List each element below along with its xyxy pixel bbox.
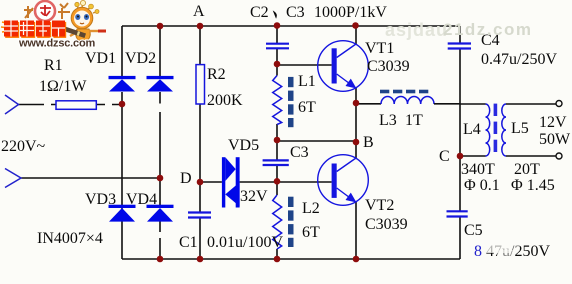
- svg-text:C3: C3: [290, 144, 309, 161]
- svg-text:20T: 20T: [514, 161, 540, 178]
- svg-text:21dz.com: 21dz.com: [443, 20, 532, 39]
- svg-text:www.dzsc.com: www.dzsc.com: [18, 38, 95, 50]
- terminal input lower: [5, 169, 21, 188]
- svg-text:IN4007×4: IN4007×4: [37, 230, 103, 247]
- svg-text:L2: L2: [302, 200, 320, 217]
- wire VT1 base: [277, 64, 332, 66]
- svg-text:C1: C1: [179, 234, 198, 251]
- output terminal top: [556, 101, 562, 107]
- 0.47u/250V label of C5: [474, 243, 550, 260]
- svg-text:VT2: VT2: [365, 197, 394, 214]
- svg-text:50W: 50W: [539, 131, 571, 148]
- inductor L3: [381, 96, 434, 104]
- junction VT1 emitter L3: [353, 100, 360, 107]
- logo magnifier: [35, 1, 55, 21]
- core of L2: [288, 197, 294, 247]
- wire transformer primary bottom: [460, 155, 486, 157]
- svg-text:1T: 1T: [405, 112, 423, 129]
- svg-text:C: C: [439, 148, 450, 165]
- junction top rail VD2: [157, 23, 164, 30]
- wire transformer primary top: [460, 103, 486, 105]
- watermark logo group: [1, 0, 106, 49]
- junction top rail C2: [274, 22, 281, 29]
- wire secondary top: [506, 103, 556, 105]
- svg-text:C3: C3: [286, 4, 305, 21]
- svg-text:VD3: VD3: [85, 191, 116, 208]
- wire AC input lower: [21, 177, 160, 179]
- winding L4: [486, 104, 490, 156]
- wire column x=277: [276, 26, 278, 259]
- svg-text:Φ 1.45: Φ 1.45: [511, 177, 555, 194]
- svg-text:0.47u/250V: 0.47u/250V: [481, 51, 557, 68]
- transformer core: [494, 104, 498, 152]
- svg-text:12V: 12V: [539, 114, 567, 131]
- svg-text:340T: 340T: [461, 161, 495, 178]
- logo brand character strokes: [24, 3, 70, 19]
- svg-text:Φ 0.1: Φ 0.1: [464, 177, 500, 194]
- wire secondary bottom: [506, 155, 556, 157]
- svg-text:L5: L5: [511, 120, 529, 137]
- diode VD3: [109, 205, 136, 222]
- junction R1 to bridge: [119, 101, 126, 108]
- svg-text:asjdau: asjdau: [385, 20, 448, 40]
- svg-text:D: D: [180, 170, 192, 187]
- wire VT2 emitter down: [355, 202, 357, 259]
- inductor L1: [273, 76, 282, 125]
- svg-text:6T: 6T: [298, 99, 316, 116]
- core of L3: [380, 90, 428, 94]
- diac VD5: [222, 157, 240, 207]
- wire right column: [459, 26, 461, 259]
- transistor VT1: [318, 41, 369, 92]
- junction bottom rail C1: [197, 256, 204, 263]
- svg-text:0.01u/100V: 0.01u/100V: [207, 234, 283, 251]
- svg-text:1Ω/1W: 1Ω/1W: [39, 78, 87, 95]
- junction node D: [197, 179, 204, 186]
- wire node D horizontal: [200, 181, 277, 183]
- wire column x=200: [199, 26, 201, 259]
- wire left column x=122: [121, 26, 123, 259]
- svg-text:32V: 32V: [240, 188, 268, 205]
- svg-text:1000P/1kV: 1000P/1kV: [314, 4, 387, 21]
- svg-text:VD1: VD1: [85, 50, 116, 67]
- wire VT2 base: [277, 181, 332, 183]
- ideographic comma of C2 C3: [274, 12, 276, 17]
- svg-text:C2: C2: [250, 4, 269, 21]
- wire top rail: [122, 25, 460, 27]
- resistor R1: [56, 101, 96, 110]
- junction top rail VT1 collector: [352, 22, 359, 29]
- wire AC input upper: [19, 104, 123, 106]
- wire node B vertical: [355, 103, 357, 158]
- junction C3 to VT2 base: [274, 178, 281, 185]
- logo pencil: [53, 25, 87, 39]
- wire column x=160: [159, 26, 161, 259]
- svg-text:220V~: 220V~: [1, 138, 46, 155]
- svg-text:L3: L3: [379, 112, 397, 129]
- svg-text:B: B: [363, 134, 374, 151]
- junction node A: [197, 23, 204, 30]
- resistor R2: [196, 65, 205, 104]
- svg-text:R2: R2: [207, 66, 226, 83]
- capacitor C1: [188, 213, 211, 218]
- capacitor C2: [266, 44, 289, 49]
- svg-text:8: 8: [474, 243, 482, 260]
- winding L5: [502, 104, 506, 156]
- wire L3 left lead: [356, 103, 381, 105]
- inductor L2: [273, 195, 282, 249]
- junction node B: [353, 139, 360, 146]
- logo weiku text: [5, 22, 66, 38]
- svg-text:6T: 6T: [302, 224, 320, 241]
- wire VT1 collector vertical: [355, 26, 357, 44]
- output terminal bottom: [556, 153, 562, 159]
- svg-text:VD4: VD4: [126, 191, 157, 208]
- wire VT1 emitter to L3 node: [355, 88, 357, 103]
- junction bottom rail L2: [274, 256, 281, 263]
- svg-text:C3039: C3039: [365, 216, 408, 233]
- terminal input upper: [5, 95, 19, 114]
- capacitor C3: [263, 160, 289, 165]
- junction bottom rail VD4: [157, 256, 164, 263]
- core of L1: [288, 77, 294, 127]
- white wash over C5 label: [485, 243, 510, 253]
- svg-text:VD2: VD2: [125, 50, 156, 67]
- svg-text:C3039: C3039: [367, 58, 410, 75]
- wire bottom rail: [122, 258, 460, 260]
- junction L1 bottom: [274, 137, 281, 144]
- svg-text:L1: L1: [298, 73, 316, 90]
- logo mascot: [70, 0, 106, 47]
- diode VD2: [147, 76, 174, 92]
- svg-text:VD5: VD5: [228, 137, 259, 154]
- junction bottom rail VT2 emitter: [353, 256, 360, 263]
- svg-text:A: A: [193, 3, 205, 20]
- svg-text:R1: R1: [44, 57, 63, 74]
- diode VD4: [147, 205, 174, 222]
- svg-text:200K: 200K: [207, 92, 243, 109]
- junction node C: [457, 153, 464, 160]
- diode VD1: [109, 76, 136, 92]
- junction AC input to VD2 VD4: [157, 175, 164, 182]
- wire node B horizontal: [277, 140, 356, 142]
- capacitor C4: [448, 44, 471, 49]
- transistor VT2: [318, 155, 369, 206]
- logo speed lines: [1, 22, 10, 32]
- wire L3 right lead: [434, 103, 460, 105]
- svg-text:L4: L4: [463, 121, 481, 138]
- svg-text:C5: C5: [464, 222, 483, 239]
- junction C2 to VT1 base: [274, 61, 281, 68]
- capacitor C5: [447, 211, 468, 216]
- svg-text:VT1: VT1: [365, 40, 394, 57]
